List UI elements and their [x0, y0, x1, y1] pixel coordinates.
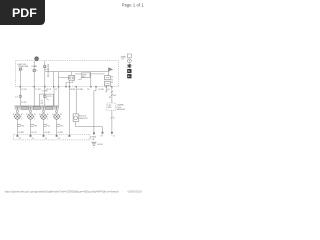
legend item: star [127, 64, 132, 69]
splice pin [93, 132, 95, 134]
inline connector C1 [19, 95, 22, 98]
svg-text:2: 2 [34, 118, 35, 120]
camshaft position sensor wire [68, 88, 70, 136]
pin 6 [69, 86, 70, 88]
relay K2 contact block [105, 76, 111, 80]
wire [111, 85, 113, 88]
svg-text:30: 30 [111, 82, 113, 84]
wire from F3 to coil bus [44, 88, 46, 107]
svg-text:PDF: PDF [12, 6, 37, 20]
wire [90, 73, 105, 75]
svg-text:SENSOR: SENSOR [79, 118, 88, 120]
wire: lower rail [75, 73, 81, 75]
inline connector C2 [43, 95, 46, 98]
svg-text:IGN MOD 15A: IGN MOD 15A [46, 64, 49, 78]
svg-text:86: 86 [111, 77, 113, 79]
wire: branch to relay K1 [53, 72, 55, 87]
fuse F1 [19, 68, 21, 70]
svg-text:12 PK: 12 PK [21, 102, 27, 104]
ICM dashed box [107, 103, 116, 110]
svg-text:12 PK: 12 PK [35, 89, 41, 91]
ignition coil 2 [26, 106, 36, 135]
pin 9 [95, 86, 96, 88]
svg-text:A 4: A 4 [113, 94, 116, 97]
wire B lower [111, 110, 113, 131]
ignition coil 1 [13, 106, 23, 135]
wire: ground run from relay pin [94, 88, 96, 133]
ECM pin 5 [69, 135, 71, 137]
pin 10 [106, 86, 107, 88]
fuse block (underhood fuse block, dashed box) [16, 61, 119, 87]
crank sensor pin 1 [102, 132, 104, 134]
svg-text:45 BU: 45 BU [57, 132, 63, 134]
svg-text:A1: A1 [22, 125, 24, 128]
pin 3 [44, 86, 45, 88]
ECM pin 2 [30, 135, 32, 137]
coil 4 wire flag [57, 124, 61, 126]
wire [58, 72, 60, 87]
svg-text:SEN: SEN [108, 107, 113, 109]
svg-text:G103: G103 [97, 144, 103, 146]
ignition coil 4 [52, 106, 62, 135]
wire [105, 85, 107, 88]
svg-text:18 BK: 18 BK [98, 89, 104, 91]
wire [90, 72, 92, 87]
pin 2 [34, 86, 35, 88]
wire [107, 72, 109, 76]
bus label box 1 [22, 107, 29, 110]
wire from knock sensor to ground run [76, 122, 103, 132]
pin 6b [65, 86, 66, 88]
PDF badge [0, 0, 45, 25]
pin 7 [76, 86, 77, 88]
svg-text:1: 1 [21, 118, 22, 120]
pin 5 [58, 86, 59, 88]
ECM connector pin label [89, 136, 91, 139]
svg-text:12 PK: 12 PK [42, 90, 48, 92]
legend item: circle [127, 59, 131, 63]
wire (dashed through connector strip) [93, 134, 95, 141]
ECM pin 1 [17, 135, 19, 137]
bus label box 3 [46, 107, 53, 110]
coil 3 wire flag [44, 124, 48, 126]
splice S101 on fuse block top edge [35, 57, 39, 61]
legend item: square [127, 54, 131, 58]
svg-text:43 YE: 43 YE [31, 132, 37, 134]
knock sensor KS [73, 114, 78, 122]
wire A stub [105, 88, 107, 92]
pin 4 [53, 86, 54, 88]
svg-text:12 PK: 12 PK [21, 89, 27, 91]
svg-text:42 BN: 42 BN [18, 132, 24, 134]
ground G103 [91, 141, 96, 143]
legend item: black square 2 [127, 74, 131, 78]
ECM pin 4 [56, 135, 58, 137]
wire from F1 to coil bus [19, 88, 21, 107]
wire [58, 88, 60, 107]
pin 1 on fuse block edge [20, 86, 21, 88]
wire [68, 80, 70, 86]
svg-text:18: 18 [109, 97, 111, 99]
svg-text:3: 3 [47, 118, 48, 120]
wire: feed rail from F3 [45, 71, 109, 73]
rail end flag [108, 68, 112, 72]
coil 2 wire flag [31, 124, 35, 126]
wire [78, 78, 81, 80]
wire to knock sensor [75, 88, 77, 114]
svg-text:C1: C1 [48, 126, 50, 128]
ECM pin 3 [43, 135, 45, 137]
svg-text:44 GN: 44 GN [44, 132, 50, 134]
svg-text:D1: D1 [61, 126, 63, 128]
coil feed bus [15, 106, 59, 110]
wire [59, 76, 69, 78]
wire B to ignition module [111, 88, 113, 104]
svg-text:SENSOR: SENSOR [117, 109, 126, 111]
svg-text:Page 1 of 1: Page 1 of 1 [122, 2, 145, 7]
svg-text:18 BN: 18 BN [77, 89, 83, 91]
pin 8 [90, 86, 91, 88]
crank sensor pin 2 [111, 132, 113, 134]
ignition coil 3 [39, 106, 49, 135]
svg-text:B1: B1 [35, 126, 37, 128]
legend item: black square 1 [127, 69, 131, 73]
coil 1 wire flag [17, 124, 21, 126]
fuse F2 [33, 61, 35, 69]
relay K1 label box [81, 73, 90, 78]
svg-text:05/09/2019: 05/09/2019 [128, 189, 143, 193]
svg-text:FUSE: FUSE [32, 66, 38, 68]
svg-text:85: 85 [111, 79, 113, 81]
crank sensor stubs [102, 134, 104, 137]
wire [66, 80, 73, 86]
pin 11 [111, 86, 112, 88]
relay K1 coil [69, 75, 75, 80]
svg-text:https://gmde.web.gm.com/gmde/d: https://gmde.web.gm.com/gmde/do/SvgRende… [5, 189, 120, 193]
wire [70, 72, 72, 76]
wire from F2 to coil bus [33, 88, 35, 107]
ECM connector strip (dashed) [14, 134, 91, 136]
wire [53, 88, 55, 107]
bus label box 2 [33, 107, 40, 110]
svg-text:18 BN: 18 BN [70, 89, 76, 91]
svg-text:4: 4 [60, 118, 61, 120]
fuse F3 [44, 61, 46, 65]
